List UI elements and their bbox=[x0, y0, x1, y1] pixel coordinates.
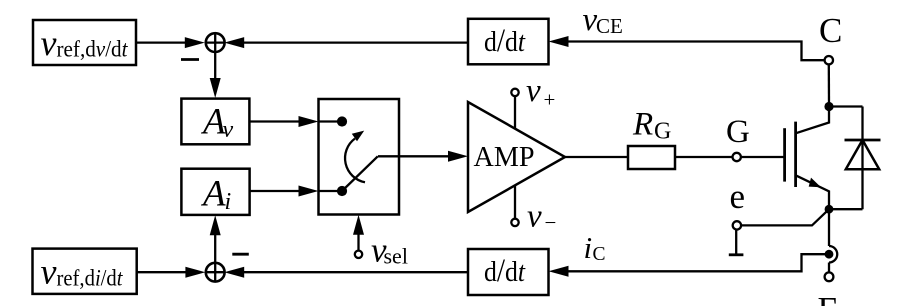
wire S1 to Av bbox=[210, 52, 221, 98]
box d/dt bottom bbox=[468, 249, 549, 295]
label iC bbox=[584, 230, 606, 265]
svg-text:G: G bbox=[654, 119, 671, 145]
wire to auxiliary emitter e bbox=[741, 209, 829, 225]
terminal C bbox=[819, 11, 842, 103]
node emitter junction bbox=[825, 205, 834, 214]
svg-text:E: E bbox=[818, 290, 839, 306]
svg-text:−: − bbox=[545, 211, 557, 235]
op-amp AMP bbox=[468, 102, 565, 212]
transistor IGBT gate bar bbox=[783, 128, 786, 181]
emitter lead with arrow bbox=[796, 175, 829, 209]
svg-text:d/dt: d/dt bbox=[484, 23, 526, 59]
svg-text:i: i bbox=[225, 189, 232, 215]
wire Av to selector bbox=[249, 116, 318, 127]
svg-text:e: e bbox=[730, 177, 746, 216]
svg-text:A: A bbox=[200, 174, 226, 215]
svg-text:v: v bbox=[526, 73, 541, 109]
label vCE bbox=[583, 2, 623, 38]
emitter wire with current sense loop bbox=[829, 209, 837, 272]
box Vref,di/dt bbox=[33, 249, 137, 294]
switch arm bbox=[342, 156, 378, 191]
supply v+ bbox=[511, 73, 555, 129]
node current sense bbox=[825, 250, 834, 259]
wire d/dt top to summer S1 bbox=[224, 37, 468, 48]
box Av bbox=[181, 99, 249, 145]
svg-text:d/dt: d/dt bbox=[484, 253, 526, 289]
transistor IGBT body bar bbox=[794, 122, 797, 187]
svg-text:CE: CE bbox=[596, 14, 623, 38]
svg-text:i: i bbox=[584, 230, 593, 265]
ground reference at e bbox=[729, 230, 744, 255]
svg-text:C: C bbox=[593, 244, 606, 265]
supply v- bbox=[511, 185, 556, 235]
wire Vref,di/dt to summer S2 bbox=[137, 267, 206, 278]
box d/dt top bbox=[468, 19, 549, 65]
terminal E bbox=[818, 272, 839, 306]
svg-text:v: v bbox=[223, 117, 234, 143]
terminal e bbox=[730, 177, 746, 230]
selector switch box bbox=[319, 99, 400, 215]
wire RG to gate terminal bbox=[675, 156, 732, 158]
summer S1 bbox=[206, 33, 225, 52]
wire d/dt bottom to summer S2 bbox=[224, 267, 468, 278]
svg-text:v: v bbox=[41, 252, 57, 292]
wire selector output to AMP bbox=[378, 151, 468, 162]
box Vref,dv/dt bbox=[33, 20, 136, 65]
wire S2 to Ai bbox=[210, 215, 221, 262]
svg-text:AMP: AMP bbox=[474, 142, 535, 173]
svg-text:+: + bbox=[544, 88, 556, 112]
diode freewheeling bbox=[829, 107, 881, 210]
node collector junction bbox=[824, 102, 833, 111]
box Ai bbox=[181, 169, 249, 215]
wire AMP to RG bbox=[565, 156, 628, 158]
selector contact bottom bbox=[319, 186, 348, 196]
terminal G bbox=[726, 114, 750, 161]
svg-text:sel: sel bbox=[384, 244, 408, 269]
vsel input bbox=[353, 215, 364, 258]
svg-text:R: R bbox=[632, 107, 653, 143]
wire Vref,dv/dt to summer S1 bbox=[136, 37, 205, 48]
resistor RG bbox=[628, 107, 675, 170]
curved arrow bbox=[345, 131, 365, 183]
minus sign at S2 bbox=[232, 253, 249, 256]
svg-text:v: v bbox=[41, 23, 57, 63]
minus sign at S1 bbox=[181, 58, 199, 61]
svg-text:G: G bbox=[726, 114, 750, 150]
svg-text:C: C bbox=[819, 11, 842, 50]
svg-text:v: v bbox=[527, 199, 542, 235]
selector contact top bbox=[319, 116, 348, 126]
label vsel bbox=[371, 231, 408, 270]
summer S2 bbox=[206, 263, 225, 282]
svg-text:ref,dv/dt: ref,dv/dt bbox=[57, 37, 129, 62]
wire iC sense bbox=[549, 254, 830, 277]
collector lead bbox=[796, 107, 829, 134]
wire G to gate bbox=[741, 156, 785, 158]
wire vCE sense bbox=[549, 36, 825, 60]
svg-text:ref,di/dt: ref,di/dt bbox=[57, 265, 124, 290]
wire Ai to selector bbox=[250, 186, 319, 197]
